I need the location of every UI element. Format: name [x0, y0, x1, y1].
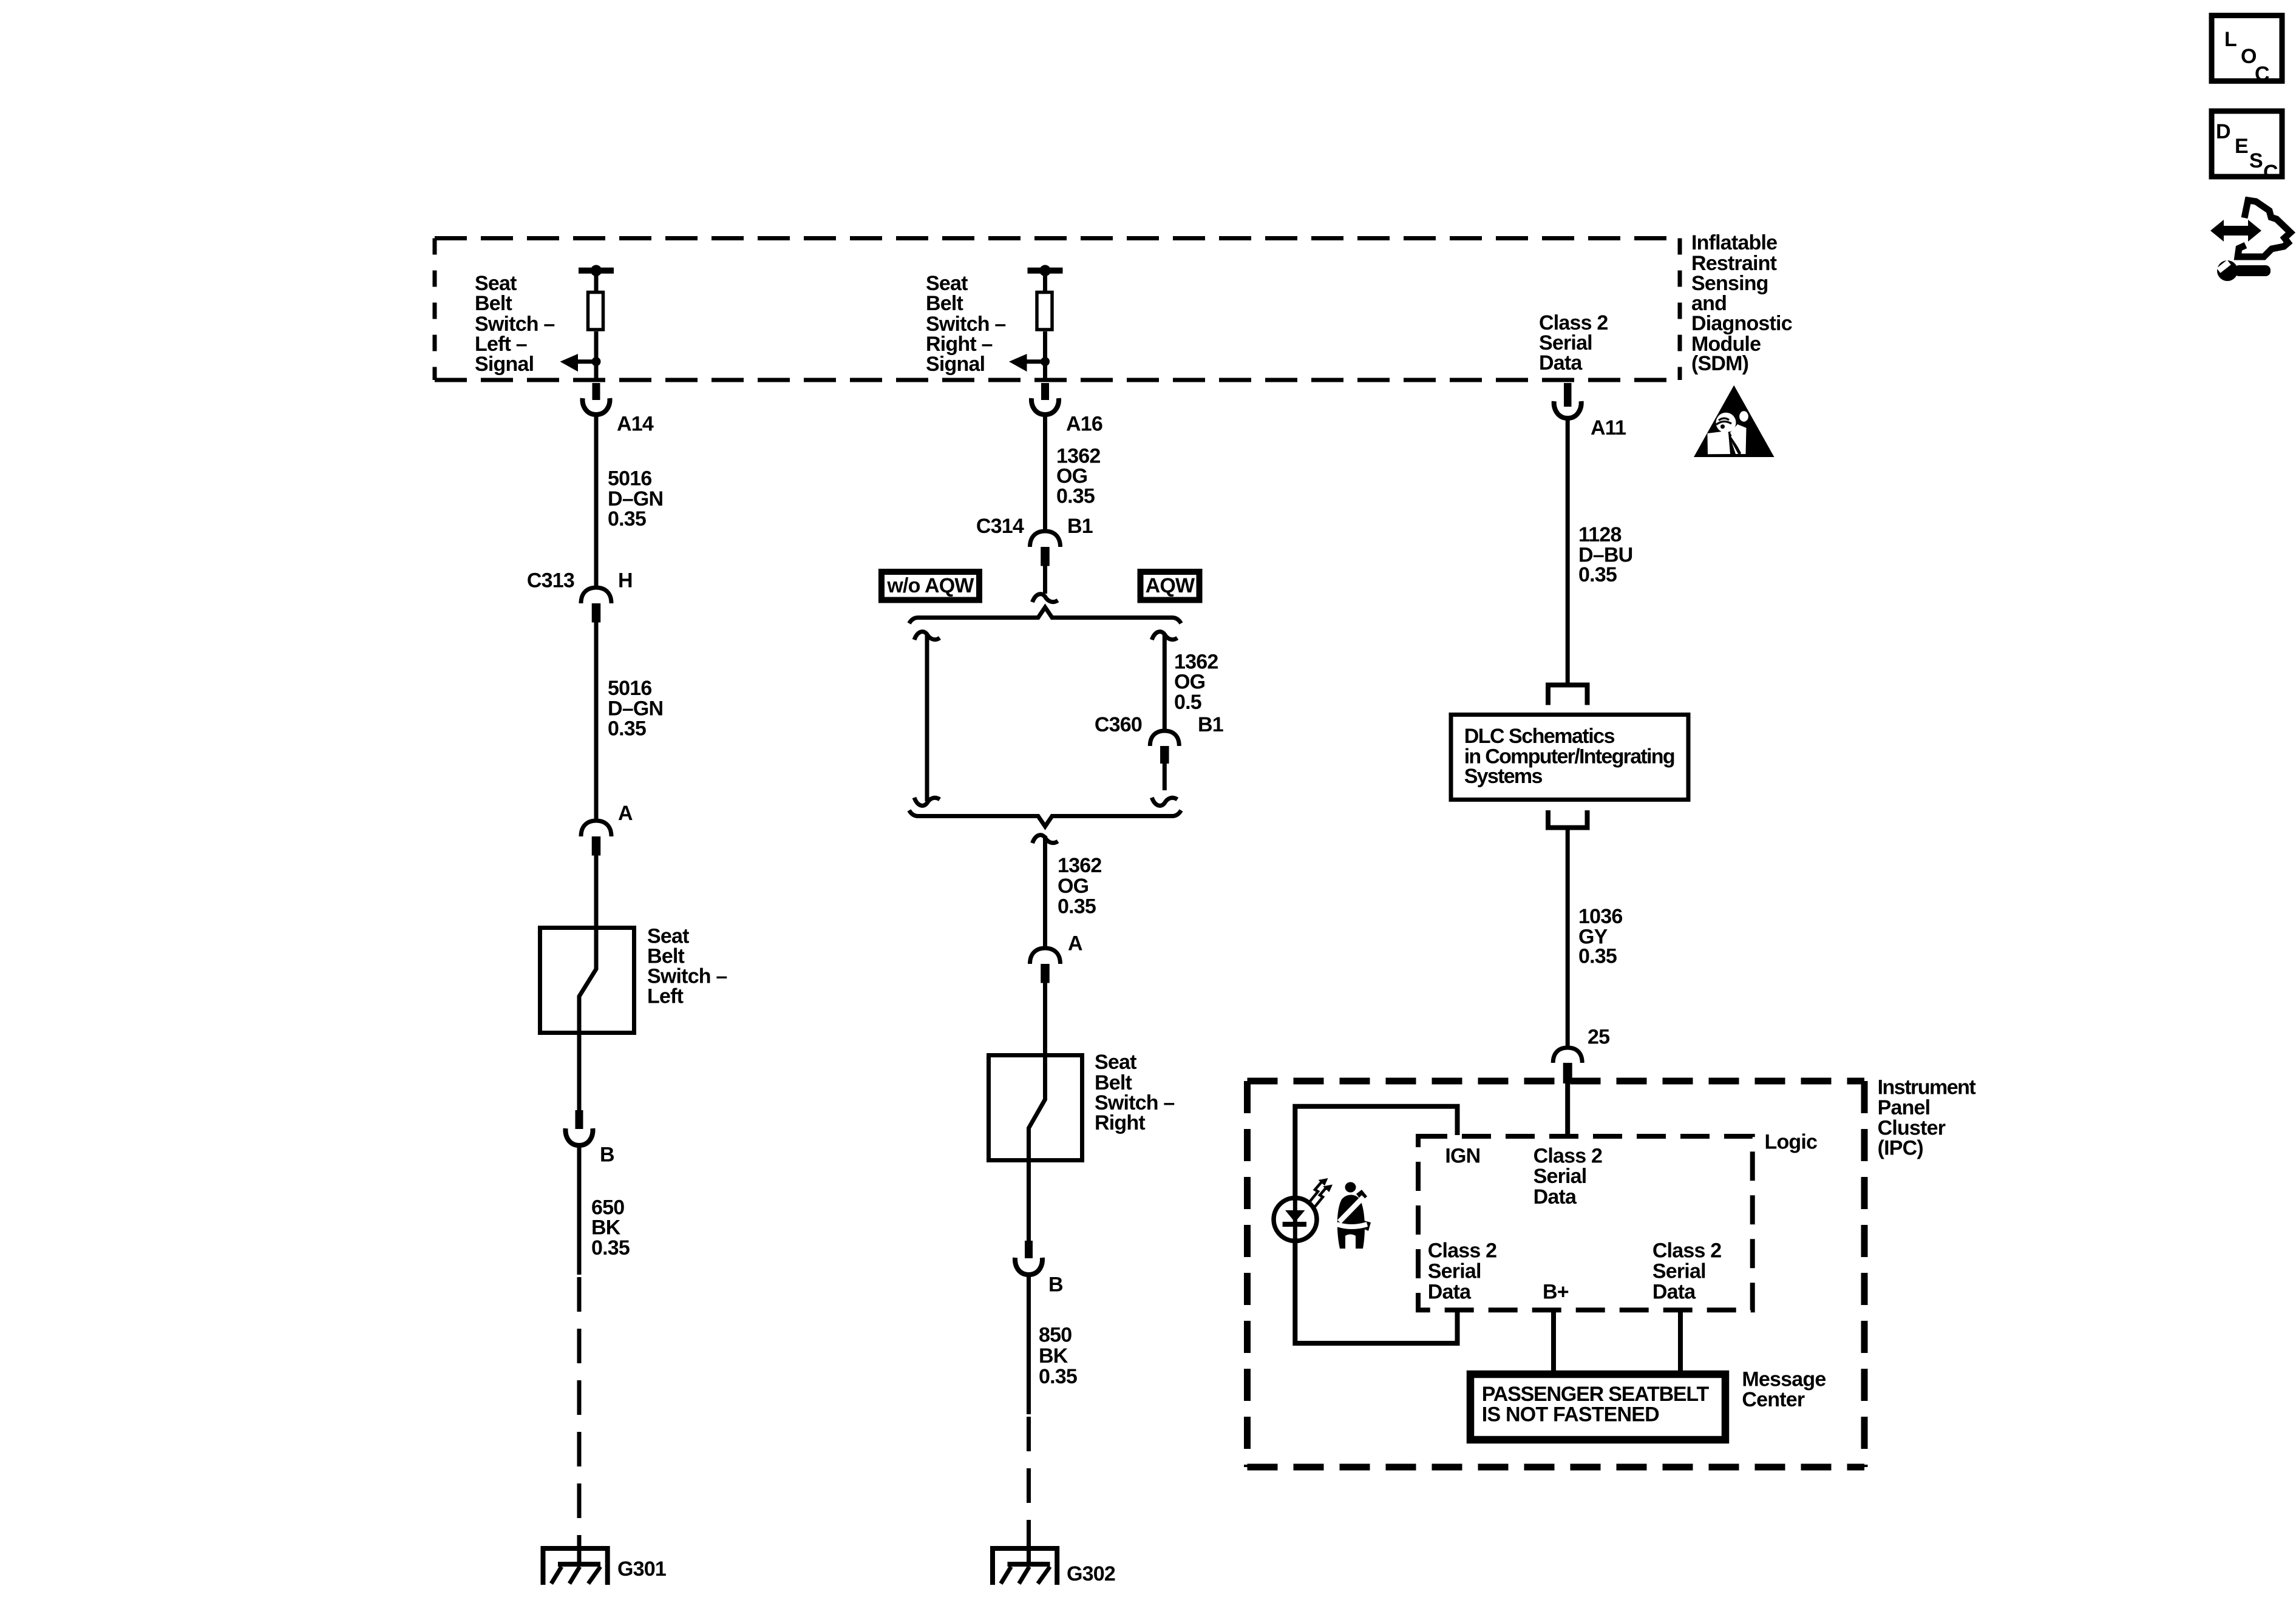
svg-text:Diagnostic: Diagnostic [1691, 312, 1792, 335]
wire [577, 1035, 582, 1111]
svg-text:Serial: Serial [1533, 1165, 1587, 1188]
terminal bar left [579, 268, 614, 274]
LOC box [2212, 16, 2282, 86]
wire [1043, 983, 1047, 1056]
svg-text:w/o AQW: w/o AQW [886, 574, 974, 597]
svg-text:Inflatable: Inflatable [1691, 231, 1777, 254]
svg-text:S: S [2249, 149, 2263, 172]
junction dot [591, 265, 602, 277]
svg-text:Belt: Belt [926, 292, 963, 315]
svg-text:Cluster: Cluster [1878, 1116, 1946, 1139]
IPC box bottom edge [1248, 1464, 1865, 1471]
svg-text:Instrument: Instrument [1878, 1076, 1976, 1099]
seat belt switch left box [540, 928, 634, 1033]
svg-text:0.35: 0.35 [1058, 895, 1096, 918]
wire [1043, 331, 1047, 380]
svg-text:A14: A14 [617, 413, 654, 436]
svg-text:IS NOT FASTENED: IS NOT FASTENED [1482, 1403, 1659, 1426]
label Seat Belt Switch - Left [647, 924, 727, 1008]
svg-text:0.35: 0.35 [1578, 945, 1617, 968]
svg-text:IGN: IGN [1445, 1145, 1480, 1168]
svg-text:G301: G301 [617, 1558, 666, 1581]
svg-text:Data: Data [1652, 1280, 1696, 1303]
w/o AQW box [881, 572, 979, 600]
svg-text:Seat: Seat [1095, 1051, 1136, 1074]
svg-text:L: L [2224, 28, 2237, 51]
svg-text:650: 650 [591, 1196, 624, 1219]
LED diode triangle [1285, 1210, 1305, 1222]
svg-text:5016: 5016 [608, 467, 651, 490]
wire class 2 serial data right [1678, 1310, 1683, 1374]
svg-text:AQW: AQW [1146, 574, 1195, 597]
svg-text:C: C [2255, 63, 2269, 86]
svg-text:A11: A11 [1591, 416, 1626, 439]
svg-text:5016: 5016 [608, 677, 651, 700]
svg-text:Signal: Signal [926, 353, 985, 376]
svg-text:Signal: Signal [475, 353, 534, 376]
svg-text:B1: B1 [1198, 713, 1223, 736]
svg-text:Data: Data [1533, 1185, 1577, 1209]
svg-text:C313: C313 [527, 569, 574, 592]
svg-text:Center: Center [1742, 1388, 1804, 1411]
label DLC Schematics in Computer/Integrating Systems [1464, 725, 1674, 788]
svg-text:D: D [2216, 120, 2230, 143]
resistor (seat belt switch left signal) [588, 293, 603, 330]
svg-text:(SDM): (SDM) [1691, 352, 1748, 375]
wire [594, 270, 599, 291]
wire B+ [1551, 1310, 1556, 1374]
svg-text:C: C [2263, 161, 2278, 184]
svg-text:BK: BK [591, 1216, 621, 1239]
wire [1163, 634, 1167, 731]
svg-text:DLC Schematics: DLC Schematics [1464, 725, 1615, 748]
connector 25 [1553, 1048, 1582, 1083]
service tool icon (double arrow, part outline, wrench) [2210, 200, 2291, 281]
svg-text:Serial: Serial [1652, 1260, 1706, 1283]
svg-text:Systems: Systems [1464, 765, 1543, 788]
svg-text:E: E [2235, 135, 2248, 158]
svg-text:0.35: 0.35 [608, 507, 646, 531]
wire [577, 1146, 582, 1275]
off-page bracket top [1548, 685, 1588, 705]
svg-text:1362: 1362 [1058, 854, 1101, 877]
ground G302 [993, 1545, 1057, 1585]
option brace top [909, 608, 1181, 624]
label Class 2 Serial Data (left) [1428, 1239, 1496, 1304]
svg-text:B+: B+ [1543, 1281, 1569, 1304]
svg-text:D–GN: D–GN [608, 697, 663, 720]
wire label 850 BK 0.35 [1039, 1323, 1077, 1388]
svg-text:Data: Data [1428, 1280, 1472, 1303]
svg-text:850: 850 [1039, 1323, 1072, 1346]
svg-text:A: A [618, 802, 633, 825]
svg-text:(IPC): (IPC) [1878, 1137, 1923, 1160]
junction dot [592, 357, 601, 366]
SDM box top edge [435, 236, 1680, 240]
terminal bar right [1028, 268, 1063, 274]
svg-text:1128: 1128 [1578, 523, 1622, 546]
option bracket w/o AQW [914, 632, 940, 640]
seat belt switch right box [989, 1056, 1082, 1161]
DLC Schematics box [1451, 714, 1688, 799]
label Seat Belt Switch - Left - Signal [475, 272, 555, 376]
wire [1043, 836, 1047, 949]
LED cathode bar [1283, 1222, 1306, 1227]
ground G301 [543, 1545, 608, 1585]
wire [594, 856, 599, 929]
LED circle [1274, 1198, 1317, 1241]
option branch AQW : top curl [1152, 632, 1177, 640]
svg-text:B: B [600, 1144, 614, 1167]
connector B (switch left) [565, 1110, 593, 1145]
label PASSENGER SEATBELT IS NOT FASTENED [1482, 1383, 1710, 1426]
svg-text:Left: Left [647, 985, 684, 1008]
svg-text:Data: Data [1539, 351, 1583, 375]
IPC box right edge [1861, 1081, 1868, 1467]
svg-text:Right: Right [1095, 1111, 1145, 1134]
SDM box right edge [1678, 239, 1682, 381]
svg-text:0.35: 0.35 [1056, 484, 1095, 507]
wire [594, 331, 599, 380]
bottom curl AQW branch [1152, 798, 1177, 805]
wire label 1362 OG 0.35 [1056, 444, 1100, 507]
svg-text:B: B [1048, 1273, 1063, 1297]
svg-text:D–GN: D–GN [608, 487, 663, 510]
connector B (switch right) [1015, 1241, 1042, 1275]
svg-text:Message: Message [1742, 1368, 1826, 1391]
SDM box left edge [433, 239, 437, 381]
svg-text:G302: G302 [1067, 1562, 1115, 1585]
wire [594, 623, 599, 822]
wire [1163, 761, 1167, 790]
wire loop bottom [1295, 1238, 1457, 1343]
wire label 650 BK 0.35 [591, 1196, 630, 1259]
svg-text:0.35: 0.35 [1039, 1365, 1077, 1388]
SDM box bottom edge [435, 378, 1680, 382]
switch contact line [579, 926, 596, 1035]
switch contact line [1029, 1053, 1045, 1162]
wire [594, 416, 599, 586]
svg-text:0.35: 0.35 [1578, 563, 1617, 586]
svg-text:H: H [618, 569, 633, 592]
IPC box top edge [1248, 1078, 1865, 1085]
wire label 5016 D-GN 0.35 [608, 677, 663, 741]
svg-text:Serial: Serial [1428, 1260, 1481, 1283]
label Class 2 Serial Data (top) [1533, 1145, 1602, 1209]
svg-text:C360: C360 [1095, 713, 1142, 736]
svg-text:0.5: 0.5 [1174, 691, 1201, 714]
wire through LED [1293, 1198, 1297, 1241]
wire label 5016 D-GN 0.35 [608, 467, 663, 531]
hanging wire to ground (dashed) [577, 1277, 582, 1548]
connector C314 [1030, 531, 1061, 566]
wire [1043, 416, 1047, 532]
junction dot [1039, 265, 1051, 277]
wire label 1128 D-BU 0.35 [1578, 523, 1632, 586]
svg-text:25: 25 [1588, 1026, 1609, 1049]
svg-text:1036: 1036 [1578, 905, 1622, 928]
svg-text:C314: C314 [976, 515, 1024, 538]
resistor (seat belt switch right signal) [1037, 293, 1052, 330]
label Class 2 Serial Data (SDM) [1539, 311, 1608, 375]
connector A11 [1554, 383, 1581, 418]
connector A16 [1031, 383, 1059, 415]
splice curl [1033, 835, 1058, 843]
svg-text:Logic: Logic [1765, 1131, 1818, 1154]
SDM label: Inflatable Restraint Sensing and Diagnostic Module (SDM) [1691, 231, 1792, 375]
svg-text:Panel: Panel [1878, 1096, 1931, 1119]
svg-text:PASSENGER SEATBELT: PASSENGER SEATBELT [1482, 1383, 1710, 1406]
svg-text:A16: A16 [1066, 413, 1102, 436]
label Seat Belt Switch - Right [1095, 1051, 1175, 1134]
svg-text:Belt: Belt [475, 292, 512, 315]
label Instrument Panel Cluster (IPC) [1878, 1076, 1976, 1160]
off-page bracket bottom [1548, 810, 1588, 828]
seat belt telltale icon [1337, 1182, 1371, 1249]
label Seat Belt Switch - Right - Signal [926, 272, 1006, 376]
wire label 1036 GY 0.35 [1578, 905, 1622, 968]
svg-text:0.35: 0.35 [608, 717, 646, 741]
svg-text:Class 2: Class 2 [1652, 1239, 1721, 1263]
label Class 2 Serial Data (right) [1652, 1239, 1721, 1304]
svg-text:BK: BK [1039, 1344, 1068, 1368]
wire loop top [1295, 1107, 1457, 1201]
svg-text:Class 2: Class 2 [1533, 1145, 1602, 1168]
wire [1566, 419, 1570, 685]
IPC box left edge [1244, 1081, 1251, 1467]
wire [1043, 270, 1047, 291]
junction dot [1041, 357, 1050, 366]
hanging wire to ground (dashed) [1027, 1417, 1031, 1548]
connector A14 [582, 383, 610, 415]
svg-text:Class 2: Class 2 [1428, 1239, 1496, 1263]
signal arrow left [1027, 359, 1045, 364]
svg-text:OG: OG [1174, 670, 1205, 693]
connector C313 [581, 588, 611, 623]
svg-text:OG: OG [1058, 875, 1089, 898]
wire [1566, 828, 1570, 1049]
splice curl [1033, 594, 1058, 602]
DESC box [2212, 111, 2282, 184]
AQW box [1141, 572, 1200, 600]
LED arrows [1310, 1181, 1327, 1207]
wire into IPC [1565, 1083, 1570, 1138]
option brace bottom [909, 810, 1181, 827]
svg-text:A: A [1068, 932, 1082, 955]
connector A (switch left) [581, 821, 611, 856]
signal arrow left [578, 359, 596, 364]
wire [1043, 566, 1047, 594]
label Message Center [1742, 1368, 1826, 1412]
svg-text:B1: B1 [1067, 515, 1093, 538]
svg-text:0.35: 0.35 [591, 1236, 630, 1259]
connector A (switch right) [1030, 948, 1061, 983]
wire [1027, 1162, 1031, 1242]
wire label 1362 OG 0.35 [1058, 854, 1101, 918]
connector C360 [1150, 731, 1179, 764]
wire [1027, 1275, 1031, 1415]
wire label 1362 OG 0.5 [1174, 650, 1218, 714]
message center box [1470, 1374, 1725, 1440]
